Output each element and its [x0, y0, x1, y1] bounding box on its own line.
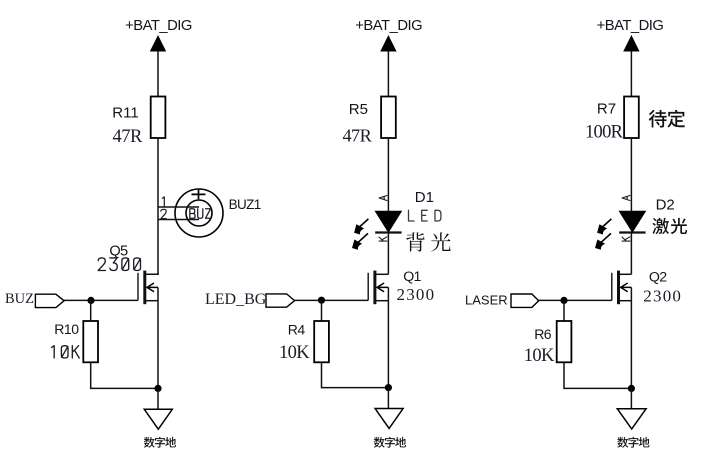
node junction — [318, 297, 325, 304]
svg-text:R7: R7 — [597, 101, 616, 118]
svg-text:47R: 47R — [113, 127, 144, 147]
resistor R4 — [314, 321, 329, 362]
wire — [157, 52, 159, 97]
wire — [630, 52, 632, 97]
svg-text:+BAT_DIG: +BAT_DIG — [597, 18, 664, 34]
transistor Q2 drain stub — [619, 273, 632, 275]
text 背光 — [406, 232, 424, 251]
node junction — [628, 385, 635, 392]
ground 1 — [144, 409, 172, 429]
buzzer pin 2 wire — [158, 219, 199, 221]
wire — [64, 299, 138, 301]
LED D2 triangle — [619, 211, 645, 232]
wire — [387, 287, 389, 387]
wire — [630, 287, 632, 388]
transistor Q5 drain stub — [145, 273, 158, 274]
pin number 2 — [161, 209, 166, 218]
wire — [539, 299, 612, 301]
svg-text:Q5: Q5 — [109, 243, 128, 259]
svg-text:2300: 2300 — [397, 285, 436, 304]
LED D1 light arrows — [356, 219, 368, 244]
wire — [321, 300, 323, 321]
wire — [295, 299, 369, 301]
wire — [322, 362, 389, 387]
transistor Q5 source stub — [145, 300, 158, 302]
svg-text:+BAT_DIG: +BAT_DIG — [125, 18, 192, 34]
transistor Q5 gate line — [137, 273, 139, 301]
svg-text:D1: D1 — [415, 189, 434, 206]
wire — [387, 52, 389, 97]
wire — [90, 300, 92, 321]
pin number 1 — [162, 197, 164, 206]
svg-text:10K: 10K — [279, 343, 310, 363]
svg-text:10K: 10K — [524, 346, 555, 366]
value LED — [409, 210, 441, 221]
transistor Q2 source stub — [619, 300, 632, 302]
transistor Q2 gate line — [611, 273, 613, 301]
transistor Q1 gate line — [367, 273, 369, 301]
wire — [630, 138, 632, 212]
transistor Q2 body arrow — [620, 283, 631, 292]
buzzer BUZ1 inner circle — [186, 200, 212, 226]
LED D2 light arrows — [599, 219, 611, 244]
buzzer value BUZ — [190, 209, 211, 219]
wire — [157, 287, 159, 388]
wire — [157, 138, 159, 274]
transistor Q5 body arrow — [147, 283, 158, 292]
ground label 数字地 3 — [617, 437, 628, 448]
wire — [563, 300, 565, 321]
port BUZ — [35, 294, 64, 307]
LED D1 triangle — [375, 211, 401, 232]
power arrow 1 — [150, 35, 166, 52]
ground 3 — [617, 409, 646, 429]
wire — [564, 362, 631, 388]
diode D1 cathode label K — [379, 237, 387, 241]
resistor R5 — [381, 97, 396, 139]
wire — [387, 233, 389, 275]
transistor Q1 channel bar — [373, 271, 376, 305]
diode D2 anode label A — [622, 196, 630, 201]
port LED_BG — [266, 294, 295, 307]
resistor R10 — [83, 321, 98, 362]
transistor Q5 channel bar — [143, 271, 146, 305]
port LASER — [511, 294, 539, 307]
svg-text:Q1: Q1 — [403, 269, 421, 285]
ground label 数字地 2 — [374, 437, 385, 448]
resistor R7 — [624, 97, 639, 139]
value 2300 (Q5) — [98, 258, 140, 271]
diode D1 anode label A — [379, 196, 387, 201]
wire — [157, 388, 159, 409]
svg-text:R6: R6 — [534, 326, 552, 342]
node junction — [385, 384, 392, 391]
svg-text:LED_BG: LED_BG — [205, 291, 267, 308]
wire — [91, 362, 158, 388]
svg-text:2300: 2300 — [643, 287, 682, 306]
svg-text:Q2: Q2 — [649, 270, 667, 286]
buzzer pin 1 wire — [158, 206, 199, 208]
svg-text:LASER: LASER — [465, 293, 508, 308]
svg-text:BUZ: BUZ — [5, 291, 34, 307]
resistor R6 — [557, 321, 572, 362]
transistor Q1 source stub — [375, 300, 389, 302]
buzzer BUZ1 outer circle — [175, 189, 223, 237]
wire — [630, 388, 632, 408]
power arrow 3 — [623, 35, 639, 52]
wire — [387, 138, 389, 212]
svg-text:47R: 47R — [343, 126, 373, 146]
diode D2 cathode label K — [622, 237, 630, 241]
wire — [387, 388, 389, 409]
svg-text:R10: R10 — [54, 321, 79, 337]
wire — [630, 233, 632, 275]
node junction — [154, 385, 161, 392]
svg-text:R5: R5 — [349, 101, 368, 118]
node junction — [87, 297, 94, 304]
svg-text:BUZ1: BUZ1 — [229, 197, 261, 212]
transistor Q1 body arrow — [377, 283, 389, 292]
power arrow 2 — [380, 35, 396, 52]
ground 2 — [375, 409, 403, 429]
transistor Q1 drain stub — [375, 273, 389, 275]
ground label 数字地 1 — [144, 437, 155, 448]
svg-text:100R: 100R — [585, 122, 624, 142]
transistor Q2 channel bar — [617, 271, 620, 305]
node junction — [560, 297, 567, 304]
LED D2 cathode bar — [619, 231, 645, 233]
value 10K (R10) — [52, 346, 80, 358]
text 待定 — [649, 110, 667, 128]
svg-text:D2: D2 — [656, 196, 675, 213]
buzzer plus sign — [192, 190, 206, 200]
resistor R11 — [151, 97, 166, 139]
svg-text:R11: R11 — [112, 105, 138, 122]
LED D1 cathode bar — [375, 231, 401, 233]
text 激光 — [652, 218, 669, 234]
svg-text:+BAT_DIG: +BAT_DIG — [355, 18, 422, 34]
svg-text:R4: R4 — [288, 322, 306, 338]
